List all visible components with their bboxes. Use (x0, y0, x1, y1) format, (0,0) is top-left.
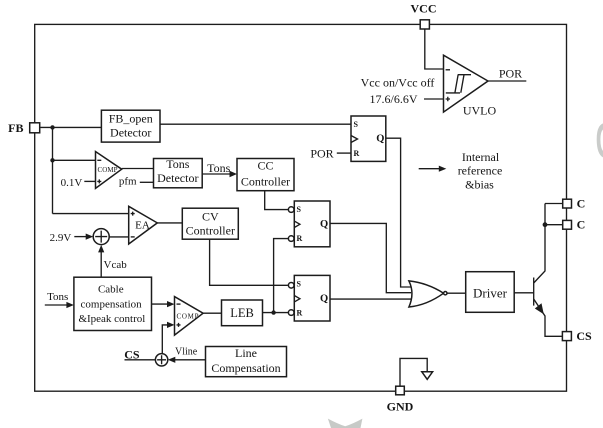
summer S2 (155, 354, 167, 366)
transistor Q1 emitter (534, 299, 562, 336)
wire POR output of UVLO (488, 80, 526, 82)
wire LEB output to latch3 R (263, 312, 289, 314)
svg-text:Internal: Internal (462, 150, 500, 164)
svg-text:Q: Q (376, 134, 384, 145)
UVLO + sign (446, 97, 450, 101)
svg-text:Line: Line (235, 346, 257, 360)
svg-text:Vcab: Vcab (104, 259, 128, 271)
UVLO hysteresis symbol (446, 75, 471, 93)
wire POR stub to latch1 R (337, 152, 351, 154)
wire latch1 Q to NOR input (386, 138, 412, 287)
svg-text:R: R (354, 149, 360, 158)
wire CCOMP2 output to LEB (203, 312, 222, 314)
svg-text:CS: CS (576, 329, 592, 343)
CCOMP2 - sign (177, 303, 181, 305)
latch U2 clock chevron (294, 221, 300, 227)
svg-text:Controller: Controller (241, 174, 290, 188)
wire FB vertical drop (52, 127, 54, 213)
svg-text:Tons: Tons (207, 161, 230, 175)
svg-text:S: S (297, 280, 302, 289)
latch U3 (bottom SR) (294, 275, 330, 321)
wire junction up to latch2 R (274, 239, 289, 313)
svg-text:CC: CC (257, 158, 273, 172)
wire Tons arrow into Cable compensation (45, 304, 68, 306)
svg-text:Compensation: Compensation (211, 361, 280, 375)
svg-text:Q: Q (320, 293, 328, 304)
ground symbol (400, 358, 427, 386)
svg-text:CV: CV (202, 209, 219, 223)
EA - sign (131, 236, 135, 238)
wire Driver to transistor base (514, 292, 534, 294)
wire CC Controller to latch2 S (265, 191, 289, 210)
wire 17.6/6.6V stub to UVLO + input (424, 98, 444, 100)
svg-text:reference: reference (458, 164, 503, 178)
pin FB (30, 123, 40, 133)
pin C (upper) (563, 199, 572, 208)
wire to CCOMP - input (53, 159, 96, 161)
svg-text:17.6/6.6V: 17.6/6.6V (370, 92, 418, 106)
op-amp U_UVLO comparator triangle (444, 55, 489, 112)
pin VCC (420, 20, 429, 29)
block Cable compensation & Ipeak control (74, 277, 152, 330)
wire Tons arrow to CC Controller (202, 173, 230, 175)
CCOMP + sign (97, 179, 101, 183)
EA + sign (131, 212, 135, 216)
wire NOR output to Driver (447, 292, 466, 294)
gate NOR (409, 281, 444, 307)
svg-text:EA: EA (135, 220, 150, 232)
svg-text:UVLO: UVLO (463, 104, 497, 118)
svg-text:Q: Q (320, 219, 328, 230)
watermark crescent right edge (597, 123, 603, 157)
svg-text:COMP: COMP (177, 312, 199, 320)
svg-text:2.9V: 2.9V (50, 232, 72, 244)
svg-text:POR: POR (499, 67, 522, 81)
svg-text:Driver: Driver (473, 285, 508, 300)
comparator CCOMP2 (lower) (175, 297, 204, 336)
svg-text:C: C (577, 218, 586, 232)
svg-text:C: C (577, 197, 586, 211)
comparator CCOMP (upper) (96, 152, 122, 189)
pin GND (396, 386, 405, 395)
svg-text:S: S (297, 205, 302, 214)
node junction on FB drop (50, 158, 54, 162)
summer S1 (93, 229, 109, 245)
latch U2 (middle SR) (294, 201, 330, 247)
node junction LEB output (271, 310, 275, 314)
transistor Q1 emitter arrow (535, 303, 544, 314)
arrow internal reference (419, 168, 440, 170)
svg-text:S: S (354, 120, 359, 129)
wire VCC drop to UVLO - input (425, 29, 444, 69)
op-amp EA (129, 206, 158, 244)
svg-text:Controller: Controller (186, 223, 235, 237)
svg-text:FB_open: FB_open (109, 111, 153, 125)
pin CS (right) (562, 332, 571, 341)
wire EA output to CV Controller (157, 222, 182, 224)
svg-text:&Ipeak control: &Ipeak control (78, 313, 145, 325)
block Tons Detector (154, 159, 203, 188)
block LEB (222, 300, 263, 326)
wire summer to EA - input (109, 236, 129, 238)
svg-text:Detector: Detector (157, 171, 198, 185)
wire FB_open Detector to latch1 S (160, 123, 351, 125)
block Line Compensation (206, 347, 287, 377)
latch U1 (top SR) (351, 116, 386, 161)
block CV Controller (182, 208, 238, 239)
wire Line Compensation arrow to summer S2 (174, 359, 206, 361)
svg-text:Tons: Tons (47, 291, 68, 303)
wire 2.9V arrow into summer (74, 236, 87, 238)
svg-text:R: R (297, 234, 303, 243)
transistor Q1 base bar (533, 278, 535, 306)
svg-text:Tons: Tons (166, 157, 189, 171)
wire CS to summer S2 (125, 359, 156, 361)
wire collector to C pin 1 (545, 203, 562, 205)
wire FB pin to FB_open Detector (40, 126, 101, 128)
border rectangle (35, 24, 567, 391)
svg-text:FB: FB (8, 121, 23, 135)
svg-text:&bias: &bias (465, 177, 494, 191)
svg-text:VCC: VCC (411, 2, 437, 16)
svg-text:pfm: pfm (119, 175, 137, 187)
watermark chevron bottom (328, 419, 363, 428)
CCOMP - sign (97, 159, 101, 161)
svg-text:Vcc on/Vcc off: Vcc on/Vcc off (361, 76, 435, 90)
CCOMP2 + sign (177, 323, 181, 327)
wire Vcab riser with up arrow into summer (100, 250, 102, 278)
wire Cable comp output arrow to CCOMP2 - (152, 303, 169, 305)
pin C (lower) (563, 220, 572, 229)
wire pfm stub (140, 181, 154, 183)
block CC Controller (237, 159, 294, 191)
latch U3 clock chevron (294, 296, 300, 302)
svg-text:POR: POR (310, 146, 333, 160)
block Driver (466, 272, 515, 313)
svg-text:LEB: LEB (230, 306, 254, 320)
wire junction to C pin 2 (545, 224, 562, 226)
block FB_open Detector (101, 110, 160, 142)
wire latch3 Q to NOR input (330, 298, 411, 300)
svg-text:Cable: Cable (98, 284, 124, 296)
wire CCOMP output to Tons Detector (122, 168, 154, 170)
node collector junction (543, 222, 548, 227)
wire summer S2 up arrow to CCOMP2 + (162, 325, 168, 354)
wire CV Controller to latch3 S (210, 239, 288, 285)
wire 0.1V stub to CCOMP + (84, 180, 95, 182)
wire EA + input (53, 213, 129, 215)
wire latch2 Q to NOR input (330, 223, 411, 292)
svg-text:GND: GND (387, 400, 414, 414)
UVLO - sign (446, 69, 450, 71)
node junction on FB wire (50, 125, 54, 129)
latch U1 clock chevron (351, 136, 358, 143)
svg-text:Vline: Vline (175, 347, 198, 358)
svg-text:COMP: COMP (98, 166, 118, 174)
svg-text:compensation: compensation (81, 298, 143, 310)
svg-text:0.1V: 0.1V (61, 177, 83, 189)
svg-text:Detector: Detector (110, 126, 151, 140)
transistor Q1 collector (534, 204, 545, 284)
svg-text:R: R (297, 309, 303, 318)
